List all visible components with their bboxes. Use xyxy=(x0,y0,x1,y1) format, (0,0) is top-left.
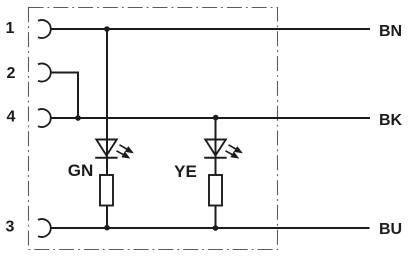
svg-text:GN: GN xyxy=(68,161,94,180)
node junction pin1/GN xyxy=(104,26,110,32)
svg-text:BN: BN xyxy=(379,23,402,40)
svg-text:BU: BU xyxy=(379,221,402,238)
svg-text:BK: BK xyxy=(379,112,403,129)
resistor R1 GN xyxy=(100,175,113,206)
resistor R2 YE xyxy=(209,175,222,206)
node junction pin2/BK xyxy=(75,115,81,121)
LED D2 YE light arrows xyxy=(226,145,242,158)
wire GN branch vertical xyxy=(106,29,108,228)
wire BK xyxy=(51,117,370,119)
wire BN xyxy=(51,28,370,30)
pin 2 contact xyxy=(38,64,51,82)
svg-text:2: 2 xyxy=(7,65,16,82)
svg-text:4: 4 xyxy=(7,109,16,126)
pin 4 contact xyxy=(38,109,51,127)
wire BU xyxy=(51,227,370,229)
svg-text:YE: YE xyxy=(174,162,197,181)
node junction YE/BU xyxy=(213,225,219,231)
pin 1 contact xyxy=(38,20,51,38)
LED D2 YE cathode bar xyxy=(204,157,226,159)
wire YE branch vertical xyxy=(215,118,217,229)
LED D1 GN cathode bar xyxy=(95,157,117,159)
LED D1 GN light arrows xyxy=(117,145,133,158)
node junction GN/BU xyxy=(104,225,110,231)
wire pin 2 down to BK node xyxy=(51,73,78,119)
LED D2 YE triangle xyxy=(205,140,226,156)
node junction YE/BK xyxy=(213,115,219,121)
svg-text:3: 3 xyxy=(6,219,15,236)
pin 3 contact xyxy=(38,219,51,237)
LED D1 GN triangle xyxy=(96,140,117,156)
svg-text:1: 1 xyxy=(6,20,15,37)
enclosure dash-dot border xyxy=(29,8,278,250)
